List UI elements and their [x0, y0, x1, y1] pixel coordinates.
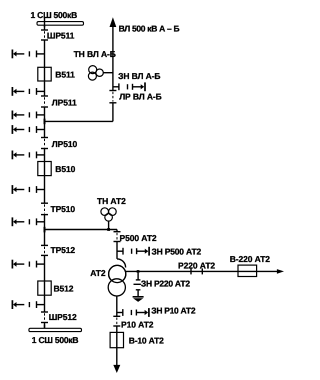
wire: left main vertical [44, 25, 46, 30]
svg-text:ЛР ВЛ А-Б: ЛР ВЛ А-Б [119, 91, 161, 101]
disconnector ТР510 [41, 202, 48, 204]
earthing switch branch 4 (left) [36, 129, 44, 131]
breaker В511 [38, 67, 51, 81]
disconnector ЛР511 [41, 95, 48, 97]
wire: АТ2 LV vertical [116, 296, 118, 316]
svg-text:В-10 АТ2: В-10 АТ2 [129, 335, 164, 345]
earthing switch ЗН Р220 АТ2 (down) [137, 273, 139, 281]
breaker В512 [38, 281, 51, 295]
svg-text:Р220 АТ2: Р220 АТ2 [178, 261, 215, 271]
svg-text:ТН ВЛ А-Б: ТН ВЛ А-Б [74, 49, 116, 59]
voltage transformer ТН АТ2 [101, 208, 109, 216]
svg-text:1 СШ 500кВ: 1 СШ 500кВ [31, 10, 78, 20]
busbar 1 СШ 500кВ bottom [29, 328, 82, 331]
svg-text:ЛР510: ЛР510 [52, 139, 78, 149]
junction dot ЗН Р220 [137, 270, 140, 273]
svg-text:ЗН ВЛ А-Б: ЗН ВЛ А-Б [118, 71, 160, 81]
earthing switch branch 9 (left) [36, 304, 44, 306]
svg-text:ШР511: ШР511 [47, 31, 75, 41]
svg-text:В512: В512 [54, 283, 74, 293]
junction tick on left main at 121 [44, 119, 46, 125]
earthing switch branch 1 (left) [36, 53, 44, 55]
disconnector Р220 АТ2 [190, 268, 192, 274]
wire: connector to АТ2 [45, 229, 118, 231]
svg-text:Р500 АТ2: Р500 АТ2 [120, 233, 157, 243]
line arrow 220 кВ (right) [277, 269, 284, 274]
disconnector ШР512 [41, 311, 48, 313]
line arrow 10 кВ (down) [116, 348, 118, 366]
breaker В-220 АТ2 [238, 265, 257, 276]
svg-text:ЗН Р10 АТ2: ЗН Р10 АТ2 [151, 305, 196, 315]
svg-text:ТН АТ2: ТН АТ2 [97, 196, 126, 206]
earthing switch ЗН Р500 АТ2 (right) [117, 250, 124, 252]
disconnector Р500 АТ2 [114, 231, 121, 233]
svg-text:В-220 АТ2: В-220 АТ2 [230, 254, 271, 264]
busbar 1 СШ 500кВ top [37, 22, 84, 26]
line arrow ВЛ 500 кВ (up) [110, 17, 117, 27]
earthing switch branch 6 (left) [36, 189, 44, 191]
svg-text:В511: В511 [55, 70, 75, 80]
disconnector ЛР510 [41, 137, 48, 139]
svg-text:ТР510: ТР510 [51, 204, 76, 214]
svg-text:ШР512: ШР512 [49, 312, 77, 322]
wire: arc into АТ2 [117, 259, 126, 268]
wire: АТ2 HV vertical [116, 230, 118, 232]
junction tick at top busbar [44, 18, 46, 28]
svg-text:ЗН Р500 АТ2: ЗН Р500 АТ2 [152, 246, 202, 256]
disconnector ЛР ВЛ А-Б [109, 90, 116, 92]
earthing switch branch 2 (left) [36, 90, 44, 92]
junction tick on left main at 229 [44, 227, 46, 233]
earthing switch ЗН ВЛ А-Б (right) [113, 86, 120, 88]
earthing switch branch 7 (left) [36, 221, 44, 223]
disconnector Р10 АТ2 [113, 315, 120, 317]
svg-text:Р10 АТ2: Р10 АТ2 [121, 320, 154, 330]
svg-text:АТ2: АТ2 [90, 268, 106, 278]
svg-text:1 СШ 500кВ: 1 СШ 500кВ [32, 335, 79, 345]
voltage transformer ТН ВЛ А-Б [89, 66, 97, 74]
svg-text:ТР512: ТР512 [51, 245, 76, 255]
wire: connector to ВЛ line [45, 120, 113, 122]
disconnector ТР512 [41, 244, 48, 246]
wire: 220 кВ line [126, 270, 277, 272]
junction tick at bottom busbar [44, 325, 46, 332]
breaker В-10 АТ2 [110, 332, 123, 347]
earthing switch branch 3 (left) [36, 114, 44, 116]
earthing switch branch 5 (left) [36, 154, 44, 156]
ground symbol ЗН Р220 [133, 296, 144, 298]
svg-text:ВЛ 500 кВ А – Б: ВЛ 500 кВ А – Б [119, 23, 180, 33]
earthing switch branch 8 (left) [36, 263, 44, 265]
svg-text:В510: В510 [55, 164, 75, 174]
disconnector ШР511 [41, 29, 48, 31]
junction dot ТН АТ2 [107, 228, 110, 231]
svg-text:ЗН Р220 АТ2: ЗН Р220 АТ2 [141, 278, 190, 288]
earthing switch ЗН Р10 АТ2 (right) [117, 312, 124, 314]
svg-text:ЛР511: ЛР511 [52, 98, 77, 108]
breaker В510 [38, 162, 51, 176]
autotransformer АТ2 [109, 265, 126, 282]
